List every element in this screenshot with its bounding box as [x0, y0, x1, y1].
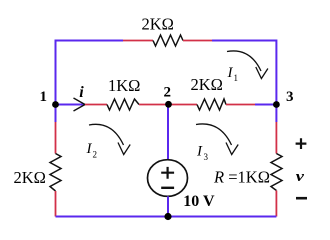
wire: left branch bottom lead (red) — [55, 191, 57, 217]
svg-text:I: I — [227, 65, 234, 81]
wire: right branch bottom lead (red) — [275, 191, 277, 217]
wire: source to bottom rail (purple) — [167, 196, 169, 216]
wire: into node 3 (purple) — [255, 104, 276, 106]
mesh current arrow I1 — [227, 51, 261, 71]
svg-text:2KΩ: 2KΩ — [191, 75, 223, 94]
voltage source plus sign — [161, 167, 174, 179]
wire: node 1 down (purple) — [55, 105, 57, 123]
wire: node 3 down (purple) — [275, 105, 277, 123]
svg-text:1KΩ: 1KΩ — [108, 76, 140, 95]
svg-text:1: 1 — [40, 89, 48, 105]
voltage source V1 10V circle — [148, 160, 188, 197]
wire: node 1 to current arrow (purple) — [56, 104, 86, 106]
svg-text:2: 2 — [93, 150, 98, 160]
bottom junction dot — [164, 213, 171, 220]
svg-text:2: 2 — [164, 85, 172, 101]
wire: node 2 to 2K resistor (red) — [169, 104, 198, 106]
resistor R 1K right vertical zigzag — [271, 154, 282, 191]
wire: lead into 1K resistor (red) — [85, 104, 107, 106]
wire: node 2 down to source (purple) — [167, 105, 169, 160]
svg-text:2KΩ: 2KΩ — [142, 15, 174, 34]
svg-text:I: I — [86, 141, 93, 157]
svg-text:i: i — [79, 84, 84, 101]
current arrow i head — [74, 98, 86, 111]
resistor 1K zigzag — [107, 99, 139, 110]
polarity minus sign (right) — [296, 197, 307, 200]
svg-text:2KΩ: 2KΩ — [14, 168, 46, 187]
wire: top lead right of 2K resistor (red) — [183, 40, 212, 42]
wire: bottom rail (purple) — [56, 216, 277, 218]
svg-text:I: I — [196, 144, 203, 160]
resistor 2K left vertical zigzag — [50, 154, 61, 192]
svg-text:R =1KΩ: R =1KΩ — [213, 168, 270, 187]
resistor 2K top zigzag — [153, 35, 183, 46]
svg-text:3: 3 — [286, 89, 294, 105]
svg-text:v: v — [296, 168, 305, 185]
svg-text:10 V: 10 V — [183, 193, 215, 210]
svg-text:3: 3 — [204, 152, 209, 162]
mesh current arrow I2 — [89, 124, 124, 145]
mesh current arrow I3 — [196, 124, 232, 145]
wire: top-right corner down to node 3 (purple) — [212, 41, 276, 105]
node 2 junction dot — [165, 101, 172, 108]
wire: top lead left of 2K resistor (red) — [123, 40, 153, 42]
node 3 junction dot — [273, 101, 280, 108]
wire: node 1 up and top-left (purple) — [56, 41, 124, 105]
wire: right branch lead (red) — [275, 122, 277, 154]
resistor 2K middle zigzag — [197, 99, 226, 110]
wire: 2K resistor toward node 3 (red) — [226, 104, 255, 106]
voltage source minus sign — [161, 187, 174, 189]
node 1 junction dot — [52, 101, 59, 108]
wire: 1K resistor to node 2 (red) — [139, 104, 169, 106]
wire: left branch lead (red) — [55, 122, 57, 154]
polarity plus sign (right) — [296, 138, 307, 149]
svg-text:1: 1 — [234, 73, 239, 83]
